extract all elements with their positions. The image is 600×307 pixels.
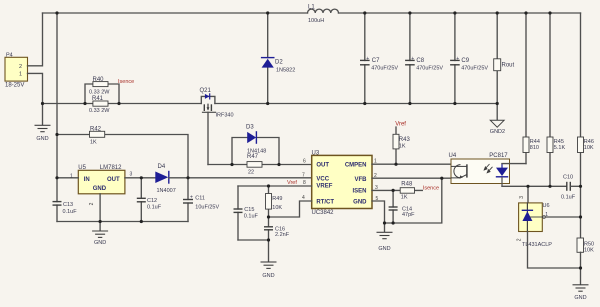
ground GND (under U5) (92, 231, 108, 237)
svg-text:3: 3 (519, 196, 525, 199)
svg-text:+: + (456, 56, 459, 62)
IC U3 UC3842 (312, 155, 372, 208)
resistor R50 10K (577, 238, 584, 252)
wire: output return to GND2 (496, 104, 498, 120)
svg-text:1K: 1K (399, 143, 406, 149)
wire: U5 GND pin to ground rail (99, 194, 101, 230)
wire: UC3842 pin 3 ISEN row (372, 189, 422, 191)
svg-text:2: 2 (516, 238, 522, 241)
resistor R40 (93, 82, 108, 87)
svg-text:GND: GND (36, 136, 48, 142)
svg-text:IN: IN (84, 177, 90, 183)
junction dots right section (526, 185, 582, 270)
phototransistor of U4 (451, 164, 467, 178)
svg-text:GND: GND (262, 273, 274, 279)
resistor R43 1K (Vref pullup to COMP) (395, 127, 397, 164)
svg-text:TL431ACLP: TL431ACLP (522, 242, 552, 248)
svg-text:0.1uF: 0.1uF (63, 209, 78, 215)
svg-text:0.1uF: 0.1uF (244, 213, 259, 219)
wire: R50/TL431 ground drop (580, 252, 582, 284)
svg-text:7: 7 (302, 173, 305, 179)
svg-text:Vref: Vref (395, 122, 406, 128)
svg-text:R48: R48 (401, 182, 413, 188)
svg-text:VCC: VCC (316, 176, 329, 182)
wire: C15/C16 ground drop (238, 240, 269, 262)
svg-text:LM7812: LM7812 (100, 165, 122, 171)
svg-text:2: 2 (89, 202, 95, 205)
svg-text:470uF/25V: 470uF/25V (416, 66, 443, 72)
svg-text:10uF/25V: 10uF/25V (195, 205, 219, 211)
svg-text:UC3842: UC3842 (312, 210, 335, 216)
capacitor C8 470uF/25V (409, 13, 411, 104)
svg-text:2: 2 (19, 64, 22, 70)
svg-text:C11: C11 (195, 196, 205, 202)
svg-text:10K: 10K (272, 205, 282, 211)
resistor R46 10K (580, 13, 582, 238)
svg-text:C8: C8 (416, 58, 424, 64)
svg-text:C7: C7 (372, 58, 380, 64)
svg-text:1K: 1K (401, 195, 408, 201)
inductor L1 100uH (308, 9, 339, 13)
wire: Vref row to pin 8 (238, 185, 312, 187)
wire: TL431 cathode pin 3 drop (527, 186, 529, 203)
wire: Q21 gate lead (207, 112, 209, 164)
wire: UC3842 pin 1 COMP to PC817 collector (372, 163, 451, 165)
svg-text:R44: R44 (530, 139, 540, 145)
svg-text:470uF/25V: 470uF/25V (461, 66, 488, 72)
pin numbers of U3 (302, 159, 379, 202)
svg-text:CMPEN: CMPEN (345, 162, 367, 168)
capacitor C10 0.1uF (567, 182, 571, 191)
regulator U5 LM7812 (78, 170, 125, 194)
svg-text:GND2: GND2 (490, 129, 505, 135)
svg-text:P4: P4 (6, 53, 13, 59)
svg-text:R49: R49 (272, 196, 282, 202)
svg-text:R45: R45 (554, 139, 564, 145)
svg-text:4: 4 (302, 195, 305, 201)
svg-text:2.2nF: 2.2nF (275, 232, 290, 238)
svg-text:810: 810 (530, 145, 539, 151)
wire: U6 reference pin 1 (530, 216, 543, 218)
svg-text:1: 1 (19, 72, 22, 78)
wire: RT/CT pin 4 run (269, 201, 312, 217)
ground GND (under C16) (261, 262, 277, 268)
wire: GND1 drop (42, 104, 44, 125)
svg-text:18-25V: 18-25V (5, 83, 24, 89)
ground GND2 (triangle) (490, 120, 504, 127)
wire: D3/R47 parallel bars (232, 138, 279, 165)
svg-text:U3: U3 (312, 150, 320, 156)
wire: UC3842 pin 5 GND (372, 201, 385, 232)
svg-text:6: 6 (303, 159, 306, 165)
TL431 symbol (inside U6) (526, 203, 528, 232)
shunt reference U6 TL431ACLP (519, 203, 543, 232)
wire: emitter node down to ground row (385, 178, 442, 223)
svg-text:R47: R47 (247, 154, 259, 160)
diode D3 1N4148 (247, 132, 256, 143)
svg-text:R41: R41 (92, 96, 104, 102)
wire: P4 pin 2 to top rail (28, 13, 43, 66)
svg-text:OUT: OUT (107, 177, 120, 183)
svg-text:470uF/25V: 470uF/25V (371, 66, 398, 72)
resistor R47 (247, 162, 262, 168)
svg-text:U6: U6 (543, 203, 550, 209)
resistor R44 810 (525, 13, 527, 164)
wire: U6 anode pin 2 to ground (528, 232, 581, 269)
capacitor C13 0.1uF (53, 202, 62, 206)
resistor R41 (93, 101, 108, 106)
svg-text:R40: R40 (93, 77, 105, 83)
svg-text:GND: GND (574, 295, 586, 301)
junction dots gate row (230, 163, 280, 166)
wire: R42 startup resistor run to VCC node (57, 135, 188, 178)
svg-text:+: + (190, 195, 193, 201)
wire: gate drive row to UC3842 OUT (208, 164, 312, 166)
svg-text:R50: R50 (584, 241, 594, 247)
wire: LED cathode row to C10/R45 (502, 185, 567, 187)
capacitor C15 0.1uF (237, 186, 239, 240)
resistor R45 5.1K (549, 13, 551, 186)
svg-text:U5: U5 (78, 165, 86, 171)
junction dots around U3 (267, 163, 444, 242)
wire: D4 cathode to UC3842 VCC pin 7 (169, 177, 312, 179)
ground GND (under U3) (377, 232, 393, 238)
svg-text:R43: R43 (399, 137, 411, 143)
svg-text:C12: C12 (147, 198, 157, 204)
resistor R48 1K (400, 188, 414, 194)
junction dots on return rail (41, 102, 499, 105)
svg-text:8: 8 (303, 180, 306, 186)
svg-text:0.33 2W: 0.33 2W (89, 90, 110, 96)
capacitor C12 0.1uF (140, 178, 142, 222)
wire: input to U5 IN (57, 177, 78, 179)
resistor R49 10K (268, 186, 270, 217)
svg-text:C9: C9 (461, 58, 469, 64)
svg-text:22: 22 (248, 169, 254, 175)
wire: U5 OUT to D4 (125, 177, 155, 179)
capacitor C14 47pF (392, 190, 394, 223)
svg-text:C15: C15 (244, 207, 254, 213)
svg-text:ISEN: ISEN (352, 188, 366, 194)
svg-text:10K: 10K (584, 145, 594, 151)
resistor Rout (load) (496, 13, 498, 104)
svg-text:Q21: Q21 (200, 88, 212, 94)
svg-text:U4: U4 (449, 153, 457, 159)
svg-text:D2: D2 (275, 59, 283, 65)
svg-text:0.33 2W: 0.33 2W (89, 108, 110, 114)
svg-text:GND: GND (93, 186, 107, 192)
wire: UC3842 pin 2 VFB / PC817 emitter (372, 177, 451, 179)
svg-text:C13: C13 (63, 202, 73, 208)
LED of U4 (501, 164, 503, 168)
svg-text:+: + (411, 56, 414, 62)
svg-text:3: 3 (130, 171, 133, 177)
svg-text:OUT: OUT (316, 162, 329, 168)
transistor Q2 1 (MOSFET IRF340) (201, 94, 215, 112)
svg-text:5.1K: 5.1K (554, 145, 566, 151)
wire: P4 pin 1 to return rail (28, 73, 43, 103)
svg-text:GND: GND (378, 246, 390, 252)
optocoupler U4 PC817 (451, 159, 510, 184)
svg-text:VFB: VFB (355, 177, 368, 183)
wire: startup feed vertical from top rail (56, 13, 58, 222)
wire: return rail (bottom) (43, 103, 498, 105)
ground GND1 (35, 125, 51, 131)
svg-text:GND: GND (94, 240, 106, 246)
resistor R42 (90, 131, 105, 137)
wire: left ground rail (57, 221, 188, 223)
wire: top input/output rail (43, 12, 581, 14)
svg-text:D3: D3 (246, 125, 254, 131)
capacitor C11 10uF/25V (187, 178, 189, 222)
capacitor C9 470uF/25V (454, 13, 456, 104)
svg-text:RT/CT: RT/CT (316, 200, 334, 206)
capacitor C7 470uF/25V (364, 13, 366, 104)
svg-text:1K: 1K (90, 140, 97, 146)
capacitor C16 2.2nF (268, 217, 270, 240)
svg-text:VREF: VREF (316, 183, 332, 189)
diode D4 1N4007 (155, 172, 168, 184)
svg-text:L1: L1 (308, 5, 315, 11)
svg-text:Isence: Isence (118, 79, 134, 85)
svg-text:R46: R46 (584, 139, 594, 145)
svg-text:Vref: Vref (287, 180, 297, 186)
svg-text:D4: D4 (158, 164, 166, 170)
wire: R40 parallel branch (85, 84, 119, 104)
junction dots on top rail (55, 11, 551, 14)
svg-text:GND: GND (353, 200, 367, 206)
light arrows of U4 (484, 164, 492, 173)
svg-text:0.1uF: 0.1uF (561, 194, 576, 200)
svg-text:1: 1 (545, 212, 548, 218)
svg-text:R42: R42 (90, 127, 102, 133)
svg-text:0.1uF: 0.1uF (147, 205, 162, 211)
wire: R44 to LED anode (502, 163, 526, 165)
svg-text:1N4007: 1N4007 (157, 188, 176, 194)
ground GND (bottom right) (573, 285, 589, 291)
junction dots left section (55, 133, 189, 223)
svg-text:C10: C10 (563, 175, 573, 181)
svg-text:IRF340: IRF340 (216, 113, 234, 119)
svg-text:PC817: PC817 (489, 153, 508, 159)
svg-text:Rout: Rout (502, 63, 515, 69)
connector P4 (5, 57, 28, 81)
svg-text:1N5822: 1N5822 (276, 68, 295, 74)
svg-text:47pF: 47pF (402, 212, 415, 218)
svg-text:+: + (366, 56, 369, 62)
svg-text:Isence: Isence (423, 186, 439, 192)
svg-text:100uH: 100uH (308, 18, 324, 24)
diode D2 1N5822 (freewheel) (267, 13, 269, 104)
svg-text:10K: 10K (584, 248, 594, 254)
